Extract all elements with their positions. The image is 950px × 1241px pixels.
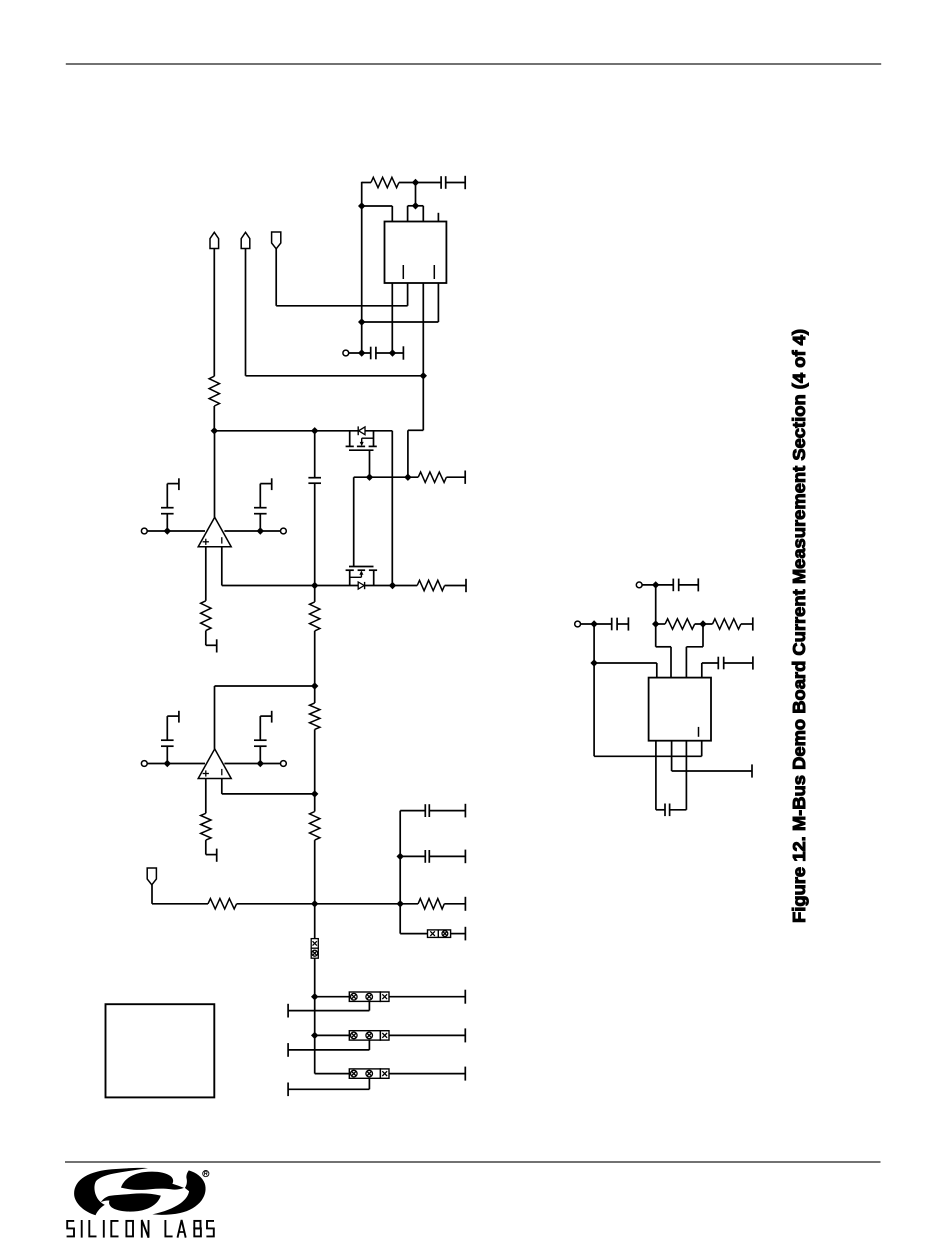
ground tap R5 (206, 639, 217, 652)
resistor R1 (371, 177, 399, 187)
wire C13 to U5 pin7 (670, 741, 687, 810)
wire rows bus (314, 997, 316, 1074)
junction dot n5 (358, 349, 365, 356)
wire n26 down (593, 624, 595, 756)
wire n20 to n21 (315, 903, 401, 905)
wire U3 to T5 (224, 763, 280, 765)
wire JA left (315, 996, 350, 998)
junction dot n20 (311, 900, 318, 907)
jumper block JD (428, 930, 451, 938)
wire R4 to port (445, 585, 466, 587)
wire n17 to U3 inv input (222, 779, 315, 794)
junction dot n4 (358, 318, 365, 325)
wire n23 down (655, 585, 657, 624)
junction dot n17 (311, 790, 318, 797)
port JA bar (464, 990, 466, 1004)
supply tap C4 (167, 478, 179, 490)
ground tap R9 (206, 849, 217, 862)
junction dot n6 (389, 349, 396, 356)
wire R12 to R13 (695, 623, 713, 625)
wire n2 to U1 pin8 (362, 206, 393, 222)
wire C3 to node B (314, 483, 316, 585)
IC U1 (385, 222, 447, 284)
wire n27 to U5 pin1 (594, 663, 657, 678)
wire pin bridge U1 (408, 206, 424, 222)
wire U1 pin2 to J3 (276, 249, 407, 306)
wire n16 to U3 output (215, 686, 315, 749)
junction dot n3 (412, 202, 419, 209)
terminal T1 (343, 350, 349, 356)
capacitor C13 (665, 804, 670, 817)
capacitor C11 (612, 618, 617, 631)
wire C4 stem (166, 484, 168, 531)
junction dot n7 (420, 372, 427, 379)
terminal T3 (281, 528, 287, 534)
wire bus row1 (400, 810, 425, 812)
wire n24 to U5 pin2 (656, 624, 671, 678)
capacitor C10 (673, 579, 678, 592)
wire R2 to n8 (213, 406, 215, 431)
junction dot n25 (699, 620, 706, 627)
supply tap C5 (260, 478, 271, 490)
junction dot n22 (397, 853, 404, 860)
wire C8 to port (429, 810, 465, 812)
U1 pin mark a (402, 265, 404, 279)
figure caption (789, 329, 809, 923)
fuse F1 (311, 939, 318, 949)
port P12 bar (752, 656, 754, 669)
port JC bar (464, 1067, 466, 1081)
capacitor C8 (425, 804, 429, 817)
resistor R6 (310, 586, 320, 687)
stub JB (288, 1040, 369, 1057)
junction dot n11 (404, 474, 411, 481)
diode D2 (Q2 body) (358, 582, 364, 589)
wire C6 stem (166, 716, 168, 763)
wire C11 to port (617, 623, 628, 625)
wire JA right (389, 996, 465, 998)
header rule (66, 63, 881, 65)
U1 pin5 stub (437, 213, 439, 222)
wire R10 to n20 (237, 903, 315, 905)
junction dot n13 (389, 582, 396, 589)
wire JD to port (451, 933, 466, 935)
resistor R7 (310, 686, 320, 794)
junction dot n8 (211, 427, 218, 434)
resistor R4 (417, 580, 444, 590)
capacitor C2 (371, 347, 376, 360)
wire n9 to C3 (314, 431, 316, 478)
connector J3 (272, 232, 281, 249)
registered trademark symbol (203, 1171, 209, 1177)
wire n21 to R11 (400, 903, 418, 905)
wire R5 tail (205, 631, 207, 646)
wire top node (362, 182, 441, 184)
wire U5 pin5 down (656, 741, 665, 810)
junction dot n14 (164, 527, 171, 534)
port P3 bar (464, 471, 466, 484)
resistor R10 (208, 899, 237, 909)
capacitor C5 (254, 508, 267, 514)
wire U5 pin6 to port (672, 741, 752, 771)
wire left vertical to C2 node (361, 182, 363, 353)
resistor R12 (665, 619, 695, 629)
wire C9 to port (429, 855, 465, 857)
wire opamp1 inv input (221, 547, 223, 586)
op-amp U2 (198, 517, 231, 547)
supply tap C7 (260, 711, 271, 723)
wire U2 to T3 (224, 530, 280, 532)
junction dot n2 (358, 202, 365, 209)
jumper block JA (349, 992, 389, 1001)
wire jog n7 to gate node (408, 376, 423, 477)
wire C5 stem (259, 484, 261, 531)
wire T4 to U3 (147, 763, 205, 765)
wire pin4 to C12 (702, 662, 719, 664)
wire n26 to U5 pin8 (594, 741, 702, 757)
stub JC (288, 1078, 369, 1096)
IC U5 (649, 678, 711, 741)
stub JA (288, 1001, 369, 1017)
port P13 bar (751, 764, 753, 777)
transistor Q2 (346, 567, 378, 586)
wire U5 pin4 top (701, 663, 703, 678)
wire U1 pin4 to n4 (362, 283, 439, 322)
footer rule (65, 1161, 881, 1163)
wire U1 pin3 down (422, 283, 424, 376)
connector J1 (210, 232, 219, 248)
wire n25 to U5 pin3 (686, 624, 703, 678)
Silicon Labs logo swirl (74, 1168, 205, 1215)
jumper block JC (349, 1069, 389, 1078)
wire U1 pin1 down (391, 283, 393, 353)
wire gate node to Q2 gate (353, 477, 355, 566)
resistor R8 (310, 794, 320, 904)
wire bus row4 (400, 933, 427, 935)
U5 pin mark (698, 727, 700, 737)
svg-text:Figure 12. M-Bus Demo Board Cu: Figure 12. M-Bus Demo Board Current Meas… (789, 329, 809, 923)
SILICON LABS wordmark (67, 1220, 214, 1238)
wire C12 to port (724, 662, 753, 664)
junction dot n10 (366, 474, 373, 481)
op-amp U3 (198, 749, 231, 779)
junction dot n24 (652, 620, 659, 627)
port P9 bar (697, 578, 699, 591)
wire J2 to U1 pin3 node (246, 249, 424, 376)
port P5 bar (464, 897, 466, 911)
resistor R9 (201, 813, 211, 840)
wire T7 to C11 (581, 623, 612, 625)
wire node A (214, 430, 358, 432)
wire T1 to C2 (349, 352, 371, 354)
capacitor C1 (441, 176, 446, 189)
wire gate node (354, 476, 419, 478)
wire n24 to R12 (656, 623, 665, 625)
diode D1 (Q1 body) (358, 426, 365, 435)
capacitor C4 (161, 508, 174, 514)
module box U4 (106, 1004, 215, 1097)
wire diode to corner (365, 431, 392, 586)
port P10 bar (752, 617, 754, 630)
transistor Q1 (346, 431, 377, 450)
junction dot nA (311, 993, 318, 1000)
junction dot n1 (412, 179, 419, 186)
resistor R5 (201, 601, 211, 631)
wire U3 plus input (205, 779, 207, 814)
wire U2 output (214, 431, 216, 517)
wire F2 down (314, 958, 316, 997)
junction dot n23 (652, 581, 659, 588)
wire n1 down (415, 183, 417, 206)
port P4 bar (465, 579, 467, 592)
wire Q1 gate (369, 450, 371, 477)
port P2 bar (402, 346, 404, 359)
resistor R3 (418, 472, 446, 482)
wire R13 to port (741, 623, 753, 625)
wire R3 to port (446, 476, 465, 478)
wire JB left (315, 1034, 350, 1036)
resistor R2 (209, 376, 219, 406)
junction dot n12 (311, 582, 318, 589)
wire T6 to C10 (642, 584, 673, 586)
port P11 bar (627, 617, 629, 630)
wire bus row2 (400, 855, 425, 857)
junction dot n21 (397, 900, 404, 907)
wire R9 tail (205, 840, 207, 855)
wire C1 to port (446, 182, 466, 184)
port P8 bar (464, 927, 466, 941)
resistor R13 (713, 619, 741, 629)
wire node B left (222, 585, 358, 587)
wire node B right (365, 585, 418, 587)
wire n20 down (314, 904, 316, 939)
wire C7 stem (259, 716, 261, 763)
U1 pin mark b (433, 265, 435, 279)
port P6 bar (464, 804, 466, 818)
junction dot n26 (590, 620, 597, 627)
wire J1 down (213, 249, 215, 377)
junction dot n18 (164, 760, 171, 767)
wire J4 to R10 (152, 885, 208, 904)
fuse F2 (311, 948, 318, 958)
capacitor C7 (254, 740, 267, 746)
capacitor C3 (308, 478, 321, 484)
junction dot n9 (311, 427, 318, 434)
terminal T2 (141, 528, 147, 534)
wire right bus (399, 811, 401, 934)
wire JC left (315, 1073, 350, 1075)
connector J4 (147, 868, 156, 885)
wire U2 plus input (205, 547, 207, 601)
junction dot n15 (257, 527, 264, 534)
terminal T4 (141, 761, 147, 767)
connector J2 (241, 232, 250, 248)
jumper block JB (349, 1031, 389, 1040)
junction dot n16 (311, 682, 318, 689)
capacitor C9 (425, 850, 429, 863)
wire T2 to U2 (147, 530, 205, 532)
wire C2 to port (376, 352, 404, 354)
wire C10 to port (679, 584, 699, 586)
port P7 bar (464, 850, 466, 864)
capacitor C12 (718, 657, 723, 670)
port JB bar (464, 1028, 466, 1042)
junction dot nB (311, 1032, 318, 1039)
junction dot n19 (257, 760, 264, 767)
terminal T7 (575, 621, 581, 627)
terminal T5 (281, 761, 287, 767)
wire JC right (389, 1073, 465, 1075)
wire JB right (389, 1034, 465, 1036)
supply tap C6 (167, 711, 179, 723)
terminal T6 (636, 582, 642, 588)
port P1 bar (464, 176, 466, 189)
junction dot n27 (590, 659, 597, 666)
capacitor C6 (161, 740, 174, 746)
resistor R11 (418, 899, 444, 909)
wire R11 to port (444, 903, 465, 905)
